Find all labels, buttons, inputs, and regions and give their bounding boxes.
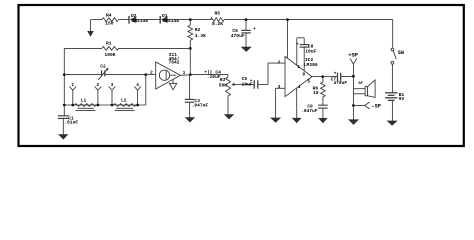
wire [391, 64, 393, 93]
ground (below C3) [185, 117, 195, 122]
capacitor C1 [58, 105, 79, 135]
resistor R2 [188, 20, 206, 75]
svg-text:L1: L1 [81, 98, 87, 104]
input arrow (down connector, top-left) [87, 20, 94, 37]
pin 3 IC2 [276, 84, 285, 90]
capacitor C7 [323, 71, 354, 86]
border frame (decorative) [19, 5, 464, 146]
pin 1 IC1 [180, 70, 190, 76]
wire [136, 19, 160, 21]
junction dots on bus [63, 104, 139, 107]
ground (IC1 internal) [170, 80, 177, 90]
node 1 contact [69, 82, 76, 105]
node 4 contact [134, 82, 141, 105]
svg-text:R3: R3 [220, 77, 226, 83]
resistor R1 [64, 40, 190, 58]
svg-text:+: + [296, 42, 299, 47]
svg-text:10uF: 10uF [305, 48, 316, 54]
svg-text:100K: 100K [105, 52, 116, 58]
ground (battery) [387, 121, 398, 126]
node junction -SP [352, 104, 355, 107]
potentiometer R3 [219, 75, 231, 115]
wire [168, 19, 212, 21]
svg-text:9V: 9V [399, 96, 405, 102]
wire [391, 100, 393, 121]
svg-text:C5: C5 [242, 76, 248, 82]
node 3 contact [109, 82, 116, 105]
node junction D1/R5/R2 [189, 18, 192, 21]
node junction IC2 pin6 [286, 18, 289, 21]
ground (speaker branch) [348, 119, 359, 125]
svg-text:R1: R1 [106, 40, 112, 46]
svg-text:50K: 50K [219, 82, 228, 88]
wire [63, 48, 65, 105]
svg-text:C6: C6 [232, 28, 238, 34]
svg-text:SW: SW [398, 50, 405, 56]
node junction coil bus right [144, 73, 147, 76]
ground (below C1) [58, 134, 68, 139]
node junction IC2 out [321, 75, 324, 78]
svg-text:LM386: LM386 [304, 62, 318, 68]
svg-text:3: 3 [111, 82, 114, 88]
ground (IC2 pin4) [292, 118, 302, 123]
svg-text:10uF: 10uF [242, 81, 253, 87]
ground (below C6) [241, 47, 252, 52]
svg-text:150: 150 [105, 21, 114, 27]
resistor R4 [102, 12, 119, 26]
svg-text:2: 2 [150, 70, 153, 76]
svg-text:R4: R4 [106, 12, 112, 18]
capacitor C6 [231, 20, 256, 48]
node junction speaker top [352, 75, 355, 78]
wire [392, 20, 394, 48]
pin 5 IC2 [307, 77, 322, 85]
wire coil bus [64, 75, 146, 105]
svg-text:R2: R2 [195, 27, 201, 33]
ground (IC2 pin3) [270, 88, 281, 123]
capacitor C3 [185, 75, 208, 118]
wire [258, 63, 285, 84]
svg-text:2: 2 [97, 82, 100, 88]
node junction input [63, 73, 66, 76]
svg-text:1: 1 [71, 82, 74, 88]
node +SP connector [348, 52, 358, 76]
wire [119, 19, 130, 21]
op-amp IC2 LM386 [285, 56, 318, 96]
node 2 contact [95, 82, 102, 105]
capacitor C4 (inline, text symbol) [190, 70, 228, 81]
svg-text:-SP: -SP [371, 103, 381, 109]
svg-text:1N4148: 1N4148 [132, 18, 149, 24]
battery B1 9V [385, 92, 404, 102]
svg-text:1: 1 [183, 70, 186, 76]
node junction C6 [245, 18, 248, 21]
svg-text:.10uF: .10uF [207, 74, 221, 80]
svg-text:3.3K: 3.3K [195, 33, 206, 39]
svg-text:8.2K: 8.2K [212, 21, 223, 27]
inductor L2 [114, 98, 136, 111]
svg-text:470uF: 470uF [333, 80, 347, 86]
op-amp IC1 [156, 52, 181, 89]
pin 6 IC2 [287, 20, 289, 59]
pin 2 IC1 [146, 70, 156, 76]
pin 4 IC2 [297, 84, 301, 118]
pin 2 IC2 [278, 60, 281, 66]
resistor R6 [313, 77, 326, 106]
svg-text:C2: C2 [100, 63, 106, 69]
svg-text:.01uF: .01uF [64, 120, 78, 126]
capacitor C9 [301, 103, 328, 118]
capacitor C8 (pins 1-8) [296, 38, 317, 78]
resistor R5 [211, 10, 225, 27]
svg-text:5: 5 [307, 78, 310, 84]
svg-text:1: 1 [297, 64, 300, 70]
node -SP connector [353, 102, 381, 109]
svg-text:4: 4 [136, 82, 139, 88]
svg-text:4: 4 [298, 84, 301, 90]
diode D1 [160, 13, 179, 24]
wiper arrow R3 [231, 83, 238, 86]
wire [91, 19, 103, 21]
speaker SP [353, 76, 375, 120]
svg-text:7642: 7642 [169, 60, 180, 66]
capacitor C2 (variable) [64, 63, 146, 80]
svg-text:L2: L2 [121, 98, 127, 104]
ground (below R3) [224, 114, 234, 119]
svg-text:SP: SP [358, 82, 363, 86]
switch SW [391, 48, 405, 64]
svg-text:8: 8 [302, 72, 305, 78]
capacitor C5 [239, 76, 258, 89]
svg-text:3: 3 [278, 84, 281, 90]
svg-text:.047uF: .047uF [192, 102, 209, 108]
ground (below C9) [318, 118, 328, 123]
svg-text:+: + [334, 71, 337, 76]
node junction R1/R2 [189, 47, 192, 50]
inductor L1 [75, 98, 97, 111]
diode D2 [129, 13, 148, 24]
svg-text:+: + [253, 27, 256, 32]
svg-text:470uF: 470uF [231, 33, 245, 39]
svg-text:10: 10 [313, 90, 319, 96]
svg-text:R5: R5 [215, 10, 221, 16]
node junction IC1 out [189, 73, 192, 76]
svg-text:2: 2 [278, 60, 281, 66]
svg-text:.047uF: .047uF [301, 108, 318, 114]
svg-text:1N4148: 1N4148 [163, 18, 180, 24]
wire [224, 19, 393, 21]
svg-text:+SP: +SP [348, 52, 358, 58]
